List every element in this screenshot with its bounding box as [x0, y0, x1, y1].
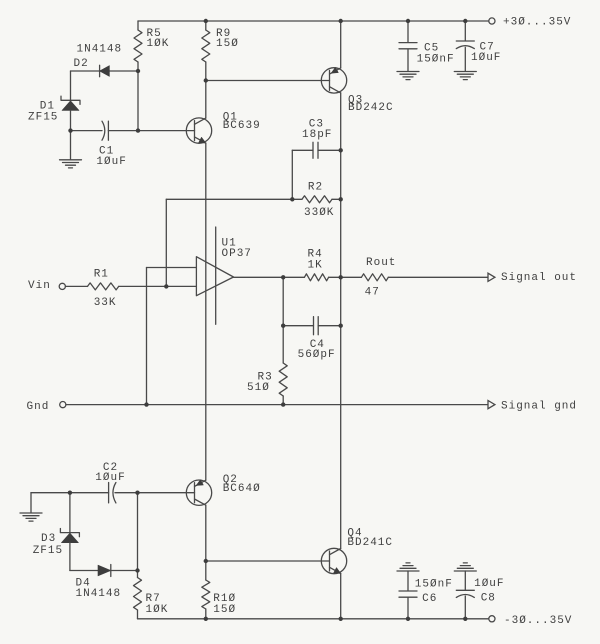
svg-text:R2: R2 — [308, 182, 323, 194]
svg-text:Vin: Vin — [28, 280, 51, 292]
svg-text:C8: C8 — [481, 593, 496, 605]
svg-text:1ØuF: 1ØuF — [95, 472, 125, 484]
svg-text:33K: 33K — [94, 297, 117, 309]
svg-text:BC639: BC639 — [223, 120, 261, 132]
svg-text:1K: 1K — [308, 260, 323, 272]
svg-text:15ØnF: 15ØnF — [415, 578, 453, 590]
svg-text:Rout: Rout — [366, 257, 396, 269]
svg-text:1ØuF: 1ØuF — [474, 578, 504, 590]
svg-text:BC64Ø: BC64Ø — [223, 483, 261, 495]
svg-text:33ØK: 33ØK — [304, 207, 334, 219]
svg-text:56ØpF: 56ØpF — [298, 349, 336, 361]
svg-text:ZF15: ZF15 — [33, 545, 63, 557]
svg-text:1ØuF: 1ØuF — [96, 156, 126, 168]
svg-text:BD241C: BD241C — [347, 537, 393, 549]
svg-text:15Ø: 15Ø — [216, 38, 239, 50]
svg-text:+3Ø...35V: +3Ø...35V — [503, 17, 571, 29]
svg-text:BD242C: BD242C — [348, 102, 394, 114]
svg-text:51Ø: 51Ø — [247, 382, 270, 394]
svg-text:Gnd: Gnd — [27, 401, 50, 413]
svg-text:1ØuF: 1ØuF — [471, 52, 501, 64]
svg-text:1N4148: 1N4148 — [77, 44, 123, 56]
svg-text:15Ø: 15Ø — [213, 604, 236, 616]
svg-text:ZF15: ZF15 — [28, 112, 58, 124]
svg-text:15ØnF: 15ØnF — [417, 54, 455, 66]
svg-text:R1: R1 — [94, 269, 109, 281]
svg-text:1N4148: 1N4148 — [76, 588, 122, 600]
svg-text:1ØK: 1ØK — [147, 38, 170, 50]
svg-text:47: 47 — [365, 287, 380, 299]
svg-text:D3: D3 — [41, 533, 56, 545]
svg-text:Signal out: Signal out — [501, 272, 577, 284]
svg-text:OP37: OP37 — [222, 248, 252, 260]
svg-text:D2: D2 — [74, 58, 89, 70]
svg-text:C6: C6 — [422, 593, 437, 605]
svg-text:Signal gnd: Signal gnd — [501, 400, 577, 412]
svg-text:18pF: 18pF — [302, 129, 332, 141]
svg-text:1ØK: 1ØK — [146, 604, 169, 616]
svg-text:-3Ø...35V: -3Ø...35V — [504, 615, 572, 627]
